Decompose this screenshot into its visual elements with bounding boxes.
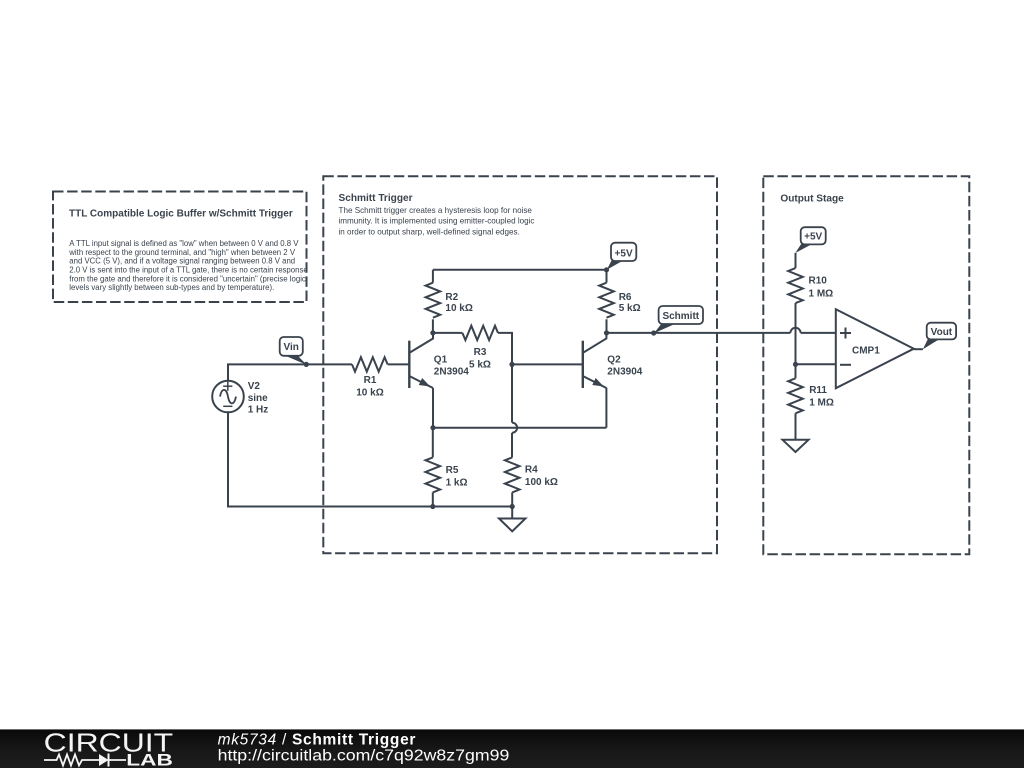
svg-text:Q2: Q2 [607,354,621,365]
junction node R2 bottom / R3 / Q1 collector [430,330,435,335]
wire: node to R11 top [795,364,797,378]
svg-text:R2: R2 [445,292,458,303]
resistor R3 5 k [462,326,498,371]
ground (Schmitt stage) [499,507,525,532]
junction node divider / op-amp - input [793,362,798,367]
footer bar [0,729,1024,768]
flag +5V (Schmitt stage) [607,243,637,270]
svg-text:Schmitt: Schmitt [662,311,699,322]
junction node Schmitt flag on bus [651,330,656,335]
wire: node down to hop over emitter bus [512,364,517,457]
resistor R4 100 k [505,457,558,492]
svg-text:R10: R10 [809,275,828,286]
svg-text:CMP1: CMP1 [852,346,880,357]
voltage source V2 sine 1 Hz [212,381,268,416]
resistor R2 10 k [426,283,473,318]
resistor R10 1 M [788,268,833,303]
annotation box: TTL Compatible Logic Buffer [53,192,308,303]
svg-text:R5: R5 [446,465,459,476]
svg-text:from the gate and therefore it: from the gate and therefore it is consid… [69,274,306,283]
resistor R1 10 k [352,357,388,398]
svg-text:R11: R11 [809,385,827,396]
wire: bottom rail R5 to R4 [433,506,512,508]
svg-text:1 MΩ: 1 MΩ [809,398,834,409]
wire: Schmitt output bus to op-amp + input, hop over divider [607,328,836,333]
svg-text:+5V: +5V [615,249,633,260]
svg-text:and VCC (5 V), and if a voltag: and VCC (5 V), and if a voltage signal r… [69,257,295,266]
svg-text:TTL Compatible Logic Buffer w/: TTL Compatible Logic Buffer w/Schmitt Tr… [69,209,293,220]
svg-text:Vin: Vin [284,342,299,353]
wire: R11 bottom to ground [795,413,797,440]
wire: V2 top lead to Vin node to R1 [228,364,352,380]
flag +5V (output stage) [795,227,825,253]
wire: Q2 emitter down to bus [605,388,607,428]
svg-text:10 kΩ: 10 kΩ [445,303,472,314]
junction node +5V rail / R6 top [604,267,609,272]
svg-text:R3: R3 [474,347,487,358]
wire: +5V top rail [433,269,607,271]
wire: R3 to corner down to Q2 base node [498,333,512,365]
svg-text:2.0 V is sent into the input o: 2.0 V is sent into the input of a TTL ga… [69,266,307,275]
svg-text:Output Stage: Output Stage [780,194,844,205]
wire: V2 bottom lead [228,412,433,506]
resistor R11 1 M [788,378,834,413]
wire: emitter bus Q1 to Q2 [433,427,606,429]
svg-text:http://circuitlab.com/c7q92w8z: http://circuitlab.com/c7q92w8z7gm99 [218,748,510,765]
junction node R5 bottom on ground rail [430,504,435,509]
wire: op-amp output stub [914,348,923,350]
svg-text:V2: V2 [248,381,261,392]
svg-text:mk5734 / Schmitt Trigger: mk5734 / Schmitt Trigger [218,731,417,748]
svg-text:R6: R6 [619,292,632,303]
svg-text:R1: R1 [364,375,377,386]
svg-text:Q1: Q1 [434,354,448,365]
junction node R4 bottom / ground [510,504,515,509]
wire: inverting node to op-amp - input [796,363,836,365]
wire: R1 to Q1 base [388,363,409,365]
annotation box: Schmitt Trigger [323,176,717,553]
svg-text:sine: sine [248,393,268,404]
wire: R6 top lead [606,270,608,283]
svg-text:A TTL input signal is defined: A TTL input signal is defined as "low" w… [69,239,299,248]
svg-text:LAB: LAB [126,751,173,768]
wire: R4 bottom lead [511,492,513,506]
svg-text:2N3904: 2N3904 [434,366,469,377]
flag Vout [923,323,956,350]
svg-text:levels vary slightly between s: levels vary slightly between sub-types a… [69,283,274,292]
flag Vin [280,337,307,365]
svg-text:The Schmitt trigger creates a: The Schmitt trigger creates a hysteresis… [339,206,533,215]
svg-text:5 kΩ: 5 kΩ [469,360,491,371]
svg-text:1 Hz: 1 Hz [248,405,269,416]
svg-text:Vout: Vout [931,327,953,338]
wire: node to R3 [433,332,463,334]
transistor Q2 2N3904 [583,333,643,388]
resistor R5 1 k [426,457,468,492]
wire: node to Q2 base [512,363,582,365]
wire: R10 bottom through to inverting node [795,303,797,364]
junction node Q1 emitter / R5 / emitter bus [430,425,435,430]
svg-text:+5V: +5V [804,232,822,243]
svg-text:1 MΩ: 1 MΩ [809,288,834,299]
annotation box: Output Stage [763,176,969,554]
footer title text [218,731,510,764]
svg-text:1 kΩ: 1 kΩ [446,478,468,489]
svg-text:2N3904: 2N3904 [607,366,642,377]
svg-text:Schmitt Trigger: Schmitt Trigger [339,193,413,204]
junction node R6 bottom / Q2 collector / Schmitt bus [604,330,609,335]
svg-text:with respect to the ground ter: with respect to the ground terminal, and… [68,248,296,257]
svg-text:100 kΩ: 100 kΩ [525,477,558,488]
junction node R3 / Q2 base / R4 [509,362,514,367]
wire: R5 bottom lead [432,492,434,506]
ground (output stage) [783,440,809,452]
CircuitLab logo [44,730,174,768]
wire: +5V to R10 top [795,253,797,268]
wire: Q1 emitter down to bus [432,388,434,428]
svg-text:immunity. It is implemented us: immunity. It is implemented using emitte… [339,217,535,226]
svg-text:5 kΩ: 5 kΩ [619,303,641,314]
wire: R6 bottom lead [606,319,608,333]
wire: R2 top lead [432,270,434,283]
resistor R6 5 k [599,283,640,318]
junction node Vin on input wire [304,362,309,367]
wire: R5 top lead [432,428,434,458]
flag Schmitt [654,306,703,333]
svg-text:10 kΩ: 10 kΩ [356,388,383,399]
svg-text:R4: R4 [525,464,538,475]
transistor Q1 2N3904 [409,333,469,388]
svg-text:in order to output sharp, well: in order to output sharp, well-defined s… [339,227,520,236]
op-amp CMP1 [836,309,914,388]
wire: R2 bottom lead to node [432,319,434,333]
